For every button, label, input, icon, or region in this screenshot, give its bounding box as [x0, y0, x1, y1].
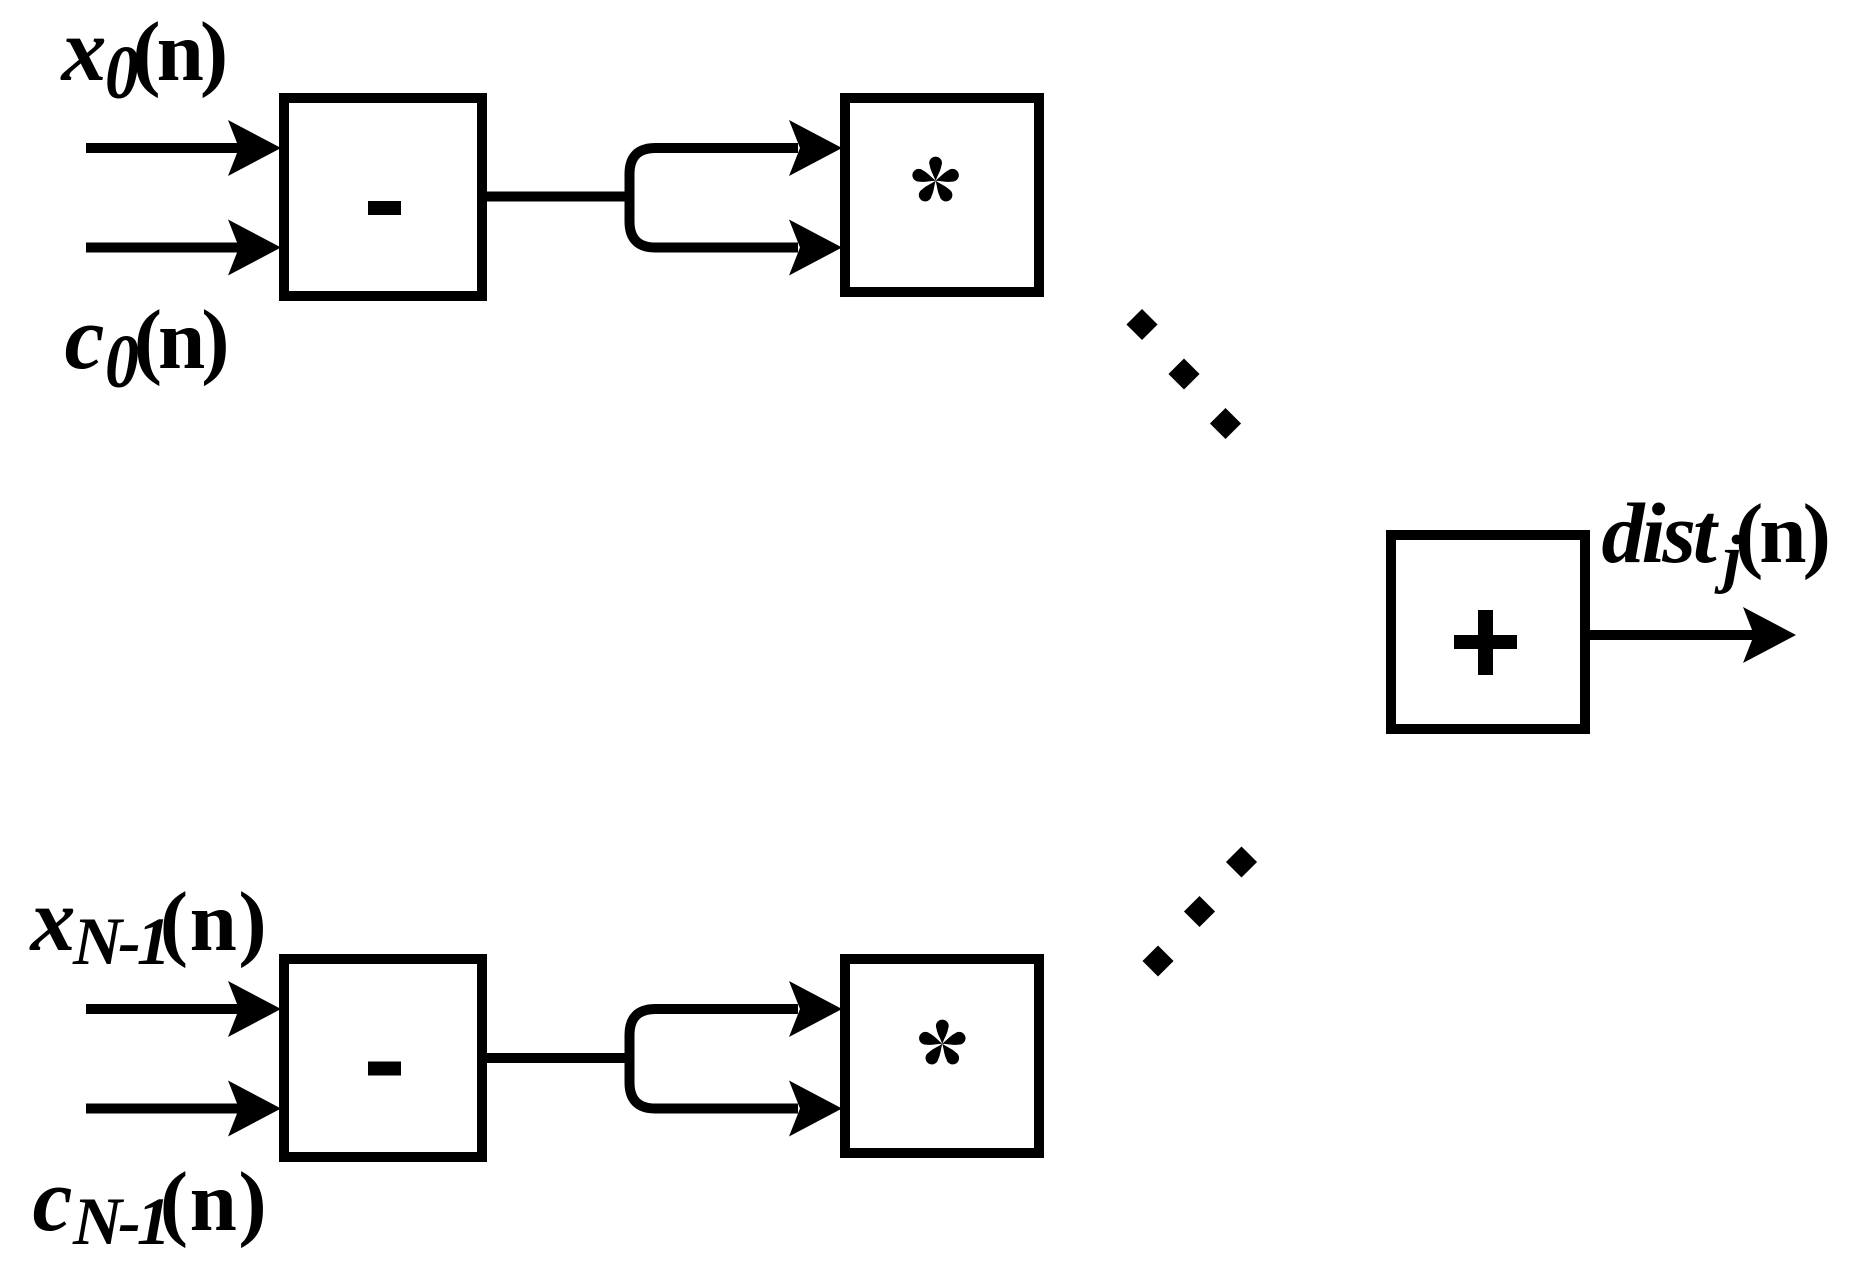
- ellipsis dots upper: [1126, 309, 1157, 340]
- wire input xN-1: [86, 1004, 268, 1014]
- svg-text:N-1: N-1: [72, 903, 167, 979]
- wire input x0: [86, 143, 268, 153]
- svg-text:x: x: [29, 871, 76, 970]
- minus sign U4: [368, 1062, 401, 1076]
- adder box U3: [1391, 535, 1585, 729]
- asterisk U2: [911, 157, 961, 204]
- svg-text:c: c: [65, 289, 105, 388]
- node distj(n) label: [1602, 485, 1828, 595]
- node c0(n) label: [65, 289, 227, 404]
- svg-text:(n): (n): [160, 875, 268, 969]
- ellipsis dots lower: [1142, 945, 1173, 976]
- wire input cN-1: [86, 1104, 268, 1114]
- wire U1 output stem: [487, 192, 634, 202]
- wire input c0: [86, 243, 268, 253]
- wire fork to multiplier U5: [630, 1009, 799, 1109]
- subtractor box U1: [284, 98, 482, 296]
- wire U4 output stem: [487, 1053, 634, 1063]
- wire fork to multiplier: [630, 148, 799, 248]
- svg-text:c: c: [33, 1151, 73, 1250]
- node x0(n) label: [60, 1, 225, 115]
- wire output dist: [1590, 630, 1785, 640]
- svg-text:dist: dist: [1602, 485, 1720, 581]
- multiplier box U5: [845, 959, 1039, 1153]
- svg-text:(n): (n): [132, 5, 225, 99]
- svg-text:x: x: [60, 1, 107, 100]
- svg-text:(n): (n): [134, 293, 227, 387]
- multiplier box U2: [845, 98, 1039, 292]
- asterisk U5: [917, 1020, 967, 1067]
- plus sign U3: [1454, 635, 1517, 649]
- node cN-1(n) label: [33, 1151, 269, 1259]
- svg-text:N-1: N-1: [72, 1183, 167, 1259]
- svg-text:(n): (n): [160, 1155, 268, 1249]
- minus sign U1: [368, 201, 401, 215]
- node xN-1(n) label: [29, 871, 269, 979]
- subtractor box U4: [284, 959, 482, 1157]
- svg-text:(n): (n): [1735, 487, 1828, 581]
